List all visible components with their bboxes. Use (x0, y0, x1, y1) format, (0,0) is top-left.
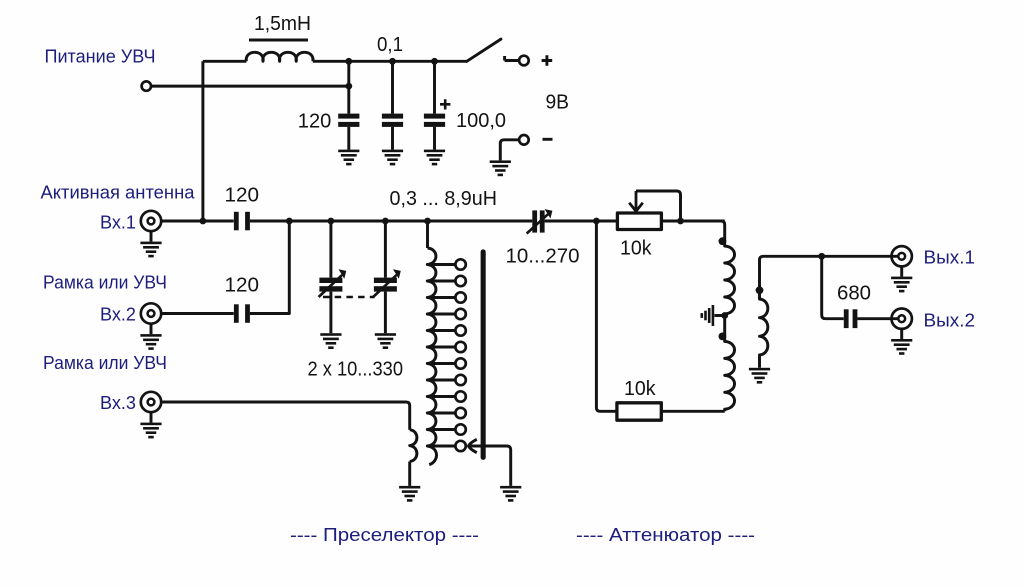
svg-text:680: 680 (837, 283, 871, 305)
minus sign (battery -) (543, 138, 553, 141)
wire: Вх.1 to C4 (161, 220, 234, 223)
dashed gang link between C6 and C7 (323, 296, 375, 299)
wire: C1 lower lead (347, 127, 350, 150)
L2 tap lead 12 (429, 445, 456, 448)
connector Вых.1 (892, 246, 912, 266)
ground under T1 secondary (749, 368, 770, 384)
svg-text:120: 120 (225, 275, 260, 297)
wire: Вых.2 ground lead (900, 329, 903, 339)
svg-text:0,1: 0,1 (377, 34, 403, 56)
ground under L3 (399, 486, 420, 502)
tapped coil L2 winding (12 humps) (427, 248, 436, 465)
junction: varicap C6 branch (328, 218, 335, 225)
ground at - terminal (490, 160, 511, 176)
R1 wiper arrow (629, 191, 643, 211)
ground under C1 (338, 150, 359, 166)
wire: preselector node to C8 (531, 220, 534, 223)
capacitor C2 plates (382, 114, 403, 127)
connector Вх.2 (141, 303, 161, 323)
ground under Вх.1 (140, 242, 161, 258)
wire: C9 to Вых.2 (857, 317, 898, 320)
svg-text:Вых.1: Вых.1 (924, 248, 976, 268)
wire: Вх.3 connector ground lead (150, 412, 153, 422)
L2 tap point 6 (455, 342, 465, 352)
ground at wiper (500, 486, 521, 502)
junction: rail / C2 (389, 58, 396, 65)
variable capacitor C7 arrow (373, 275, 397, 297)
L2 tap lead 1 (429, 263, 456, 266)
capacitor C9 plates (series) (844, 309, 858, 328)
sideways ground at centre tap (701, 305, 715, 326)
L2 tap lead 10 (429, 412, 456, 415)
wire: C5 up to Вх.1 rail (250, 221, 289, 314)
svg-text:---- Аттенюатор ----: ---- Аттенюатор ---- (576, 525, 755, 545)
junction: Вх.2 branch (286, 218, 293, 225)
svg-text:Питание УВЧ: Питание УВЧ (45, 47, 156, 67)
L2 tap point 3 (455, 292, 465, 302)
L2 tap lead 7 (429, 362, 456, 365)
wire: varicap C7 upper lead (384, 221, 387, 278)
capacitor C1 plates (338, 114, 359, 127)
T1 secondary polarity dot (756, 286, 764, 294)
junction: rail / C1 (345, 58, 352, 65)
wire: C4 to preselector node (250, 220, 532, 223)
variable capacitor C7 plates (374, 278, 397, 292)
potentiometer R1 10k body (617, 213, 661, 230)
svg-text:Рамка или УВЧ: Рамка или УВЧ (43, 353, 167, 373)
ground under Вх.3 (140, 423, 161, 439)
L2 tap lead 9 (429, 395, 456, 398)
junction: attenuator input node (593, 218, 600, 225)
junction: output node (818, 253, 825, 260)
wire: Вх.2 to C5 (161, 312, 234, 315)
L2 core bar (481, 249, 486, 460)
wire: varicap C6 lower lead (329, 292, 332, 334)
svg-text:1,5mH: 1,5mH (254, 13, 311, 35)
junction: varicap C7 branch (382, 218, 389, 225)
L2 tap lead 11 (429, 428, 456, 431)
variable capacitor C6 plates (319, 278, 342, 292)
power input terminal (Питание УВЧ) (142, 81, 151, 90)
L2 tap point 12 (455, 441, 465, 451)
switch SA1 blade (467, 39, 501, 61)
ground under C2 (382, 150, 403, 166)
svg-text:100,0: 100,0 (456, 110, 506, 132)
switch fixed contact with tick (505, 56, 519, 61)
wire: C2 lower lead (391, 127, 394, 150)
L2 tap lead 2 (429, 280, 456, 283)
wire: terminal to filter node (152, 85, 349, 88)
capacitor C5 plates (series) (234, 304, 250, 323)
wire: rail down to L2 (426, 221, 429, 248)
wire: supply rail left segment (203, 60, 247, 63)
svg-text:Вх.1: Вх.1 (100, 213, 136, 233)
connector Вх.3 (141, 392, 161, 412)
svg-text:120: 120 (298, 111, 332, 133)
L2 tap point 10 (455, 408, 465, 418)
wire: output node down and to C9 (822, 256, 844, 318)
wire: L3 to ground (408, 462, 411, 486)
variable capacitor C6 arrow (319, 275, 343, 297)
wire: C2 upper lead (391, 61, 394, 113)
svg-text:10k: 10k (624, 378, 656, 400)
capacitor C3 plates (424, 114, 445, 127)
transformer T1 secondary winding (3 humps) (760, 256, 899, 368)
wire: vertical from UHF-supply rail down to Вх.1 rail (201, 61, 204, 221)
junction: terminal wire joins C1 branch (345, 83, 352, 90)
T1 primary polarity dot (top) (719, 237, 727, 245)
connector Вых.2 (892, 309, 912, 329)
inductor L1 1,5mH (4 humps) (246, 52, 313, 61)
junction: coil L2 branch (424, 218, 431, 225)
wire: R2 to T1 primary bottom (661, 410, 724, 413)
L2 tap lead 8 (429, 379, 456, 382)
wire: wiper link to right terminal (636, 191, 681, 221)
wire: centre tap to chassis ground (714, 314, 724, 317)
L2 tap point 11 (455, 424, 465, 434)
wire: - terminal to ground (500, 140, 518, 161)
battery + terminal (519, 56, 529, 66)
ground under C7 (375, 333, 396, 349)
L2 tap point 1 (455, 259, 465, 269)
L2 tap lead 5 (429, 329, 456, 332)
svg-text:2 x 10...330: 2 x 10...330 (308, 359, 404, 381)
svg-text:Вх.2: Вх.2 (100, 305, 136, 325)
ground under Вх.2 (140, 334, 161, 350)
resistor R2 10k body (617, 403, 661, 420)
junction: T1 centre tap (721, 312, 728, 319)
tap selector wiper arrow (469, 439, 477, 452)
ground under C3 (424, 150, 445, 166)
inductor L1 core bar (249, 39, 308, 42)
junction: rail / C3 (431, 58, 438, 65)
ground under Вых.1 (891, 277, 912, 293)
L2 tap point 7 (455, 358, 465, 368)
ground under C6 (320, 333, 341, 349)
wire: C8 to attenuator (545, 220, 618, 223)
svg-text:10...270: 10...270 (506, 246, 580, 268)
svg-text:10k: 10k (620, 238, 652, 260)
L2 tap point 4 (455, 309, 465, 319)
L2 tap point 2 (455, 276, 465, 286)
L2 tap point 5 (455, 325, 465, 335)
wire: Вх.3 rail (161, 402, 410, 430)
svg-text:0,3 ... 8,9uH: 0,3 ... 8,9uH (390, 188, 498, 210)
wire: Вых.1 ground lead (900, 267, 903, 277)
wire: C1 upper lead (347, 61, 350, 113)
trimmer capacitor C8 plates (532, 210, 544, 232)
wire: Вх.2 connector ground lead (150, 324, 153, 334)
wire: supply rail right segment to switch (313, 60, 467, 63)
svg-text:---- Преселектор ----: ---- Преселектор ---- (290, 525, 479, 545)
coupling coil L3 (2 humps) (410, 430, 417, 462)
wire: wiper to ground (469, 446, 511, 486)
svg-text:120: 120 (225, 185, 260, 207)
svg-text:Активная антенна: Активная антенна (41, 183, 196, 203)
wire: varicap C6 upper lead (329, 221, 332, 278)
connector Вх.1 (141, 211, 161, 231)
svg-text:Вых.2: Вых.2 (924, 311, 976, 331)
L2 tap point 9 (455, 391, 465, 401)
wire: C3 lower lead (433, 127, 436, 150)
L2 tap point 8 (455, 375, 465, 385)
svg-text:Вх.3: Вх.3 (100, 393, 136, 413)
L2 tap lead 3 (429, 296, 456, 299)
junction: wiper link joins rail (677, 218, 684, 225)
svg-text:9В: 9В (546, 92, 570, 114)
wire: C3 upper lead (433, 61, 436, 113)
plus sign (battery +) (542, 55, 553, 66)
junction: supply drop on Вх.1 rail (200, 218, 207, 225)
polarity + of electrolytic C3 (440, 99, 450, 109)
wire: R1 to T1 primary top (661, 220, 724, 223)
transformer T1 primary winding (two sections of 4 humps) (721, 221, 735, 411)
capacitor C4 plates (series) (234, 212, 250, 231)
svg-text:Рамка или УВЧ: Рамка или УВЧ (43, 273, 167, 293)
wire: Вх.1 connector ground lead (150, 231, 153, 241)
T1 primary polarity dot (bottom) (719, 333, 727, 341)
battery - terminal (519, 135, 529, 145)
L2 tap lead 4 (429, 313, 456, 316)
ground under Вых.2 (891, 339, 912, 355)
wire: varicap C7 lower lead (384, 292, 387, 334)
wire: attenuator left branch down (596, 221, 617, 411)
L2 tap lead 6 (429, 346, 456, 349)
trimmer capacitor C8 arrow (527, 214, 548, 233)
